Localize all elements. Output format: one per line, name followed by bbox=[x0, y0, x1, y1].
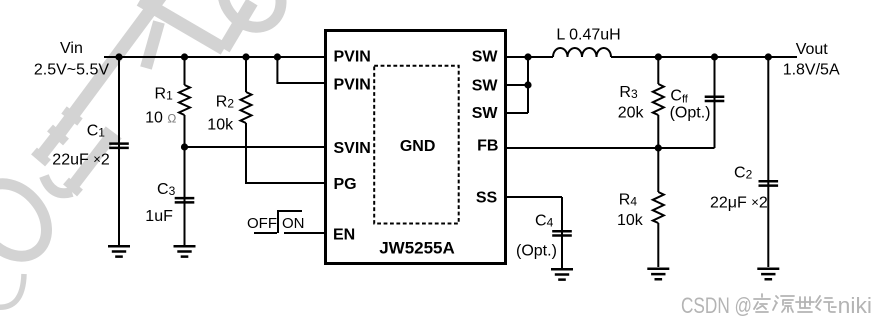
svg-text:OFF: OFF bbox=[247, 215, 277, 232]
svg-text:JW5255A: JW5255A bbox=[379, 239, 455, 258]
svg-text:R3: R3 bbox=[619, 84, 638, 101]
svg-text:SW: SW bbox=[472, 105, 499, 122]
svg-text:1.8V/5A: 1.8V/5A bbox=[783, 62, 840, 79]
svg-text:22μF ×2: 22μF ×2 bbox=[710, 195, 768, 212]
svg-text:1uF: 1uF bbox=[145, 208, 173, 225]
svg-text:C4: C4 bbox=[535, 213, 554, 230]
svg-text:SS: SS bbox=[476, 189, 498, 206]
svg-text:Vout: Vout bbox=[796, 41, 829, 58]
svg-text:C2: C2 bbox=[734, 165, 753, 182]
svg-text:R4: R4 bbox=[619, 192, 638, 209]
svg-text:PVIN: PVIN bbox=[334, 49, 371, 66]
svg-text:L 0.47uH: L 0.47uH bbox=[556, 27, 620, 44]
svg-text:Cff: Cff bbox=[670, 88, 688, 106]
svg-text:C3: C3 bbox=[157, 181, 176, 198]
svg-text:GND: GND bbox=[400, 138, 436, 155]
svg-text:Vin: Vin bbox=[60, 40, 83, 57]
svg-text:(Opt.): (Opt.) bbox=[670, 105, 711, 122]
svg-text:EN: EN bbox=[333, 227, 355, 244]
svg-text:R1: R1 bbox=[155, 86, 174, 103]
svg-text:ON: ON bbox=[282, 215, 305, 232]
svg-text:R2: R2 bbox=[216, 93, 235, 110]
svg-text:22uF ×2: 22uF ×2 bbox=[52, 152, 110, 169]
svg-text:10 Ω: 10 Ω bbox=[145, 110, 176, 127]
svg-text:SW: SW bbox=[472, 78, 499, 95]
svg-text:-niki: -niki bbox=[830, 293, 872, 318]
svg-text:FB: FB bbox=[477, 137, 498, 154]
svg-text:10k: 10k bbox=[207, 116, 234, 133]
svg-text:SW: SW bbox=[472, 49, 499, 66]
svg-text:C1: C1 bbox=[87, 123, 106, 140]
svg-text:PVIN: PVIN bbox=[334, 77, 371, 94]
svg-text:(Opt.): (Opt.) bbox=[516, 243, 557, 260]
svg-text:20k: 20k bbox=[618, 105, 645, 122]
svg-text:CSDN @: CSDN @ bbox=[681, 293, 752, 318]
svg-text:2.5V~5.5V: 2.5V~5.5V bbox=[34, 62, 110, 79]
svg-text:PG: PG bbox=[334, 176, 357, 193]
svg-text:SVIN: SVIN bbox=[334, 140, 371, 157]
svg-text:10k: 10k bbox=[617, 212, 644, 229]
